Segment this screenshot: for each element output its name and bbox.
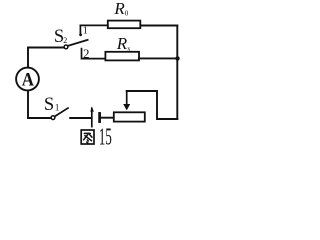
svg-text:1: 1 [83, 25, 88, 36]
svg-text:A: A [22, 69, 34, 90]
svg-text:2: 2 [83, 46, 90, 61]
svg-text:2: 2 [63, 36, 67, 45]
svg-text:R: R [116, 34, 128, 53]
svg-text:15: 15 [99, 125, 112, 150]
svg-text:0: 0 [125, 9, 129, 17]
svg-text:R: R [113, 0, 125, 18]
svg-text:1: 1 [55, 102, 60, 112]
svg-text:S: S [44, 95, 54, 115]
